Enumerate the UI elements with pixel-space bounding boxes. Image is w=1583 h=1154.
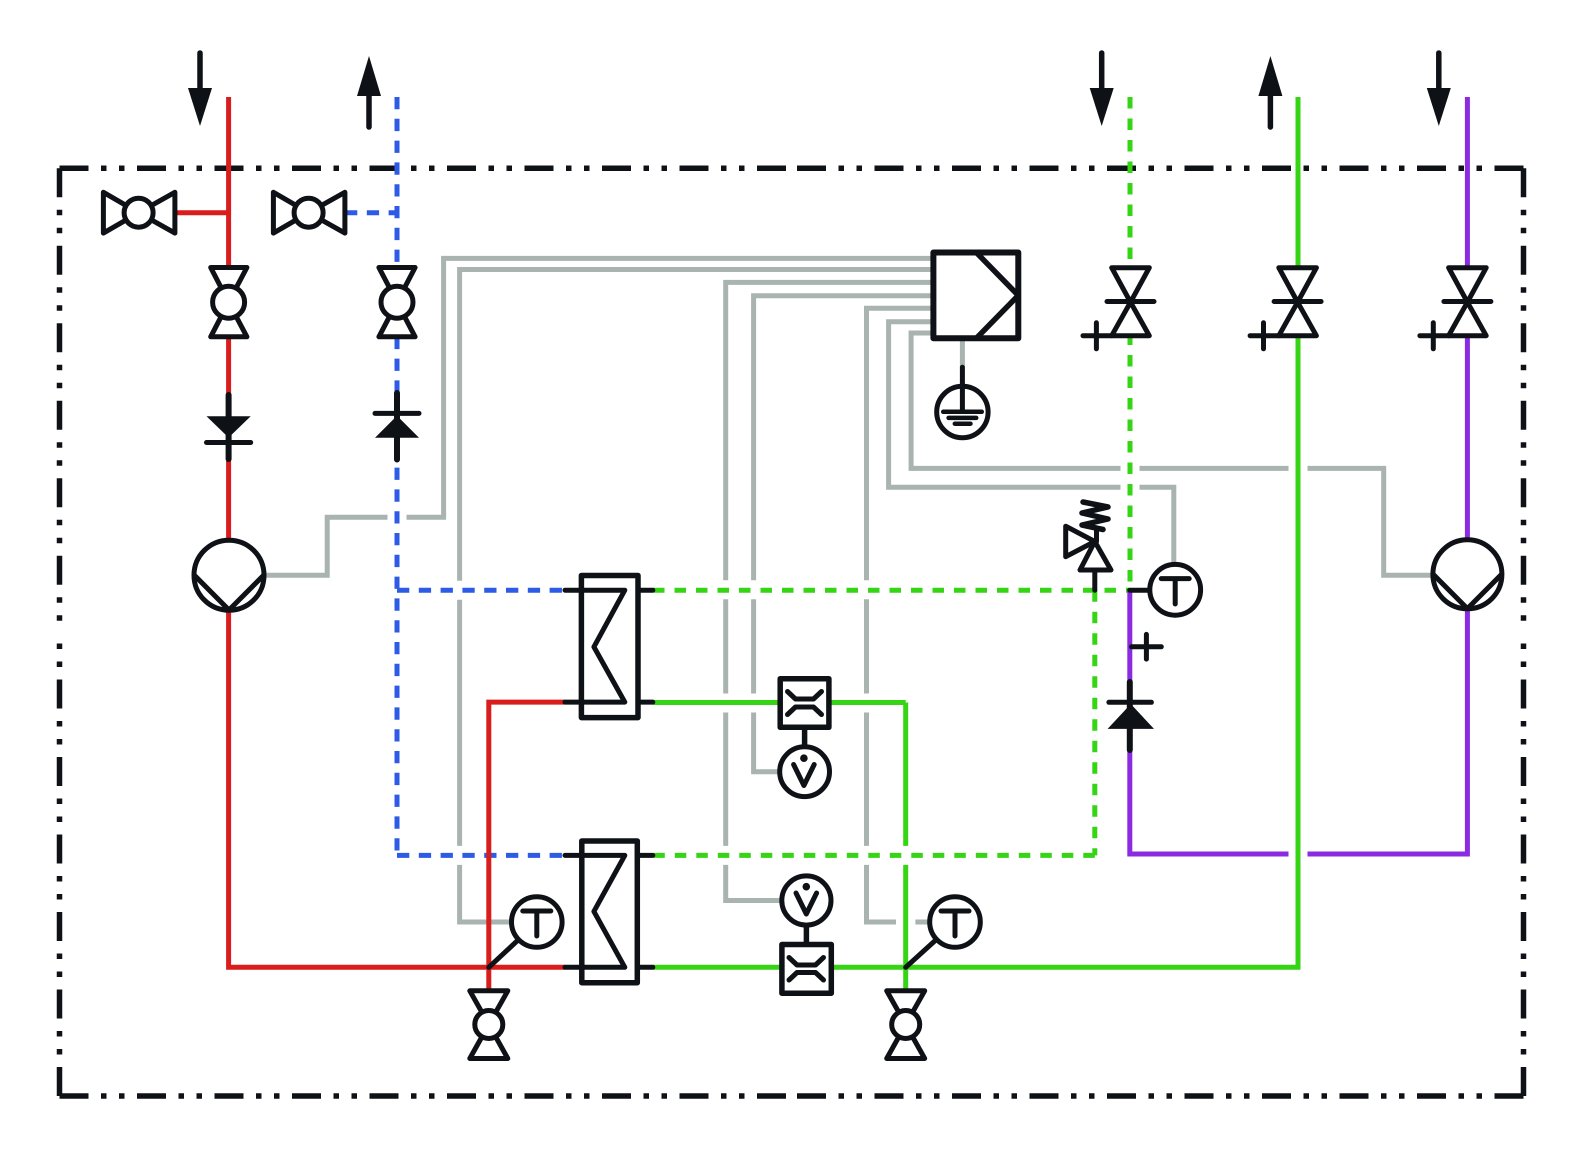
temperature sensor T2 (906, 897, 981, 968)
flow sensor F2 (782, 876, 831, 945)
temperature sensor T3 (1130, 564, 1201, 615)
control wire W7 controller to pump P2 (911, 333, 1433, 575)
green dashed vertical branch (1092, 590, 1097, 855)
purple pipe from top entry through pump P2 (1308, 97, 1468, 854)
control wire W6 controller to sensor T3 (889, 322, 1174, 565)
check valve CV3 (purple line) (1108, 682, 1154, 750)
red supply pipe vertical and bottom run (229, 97, 565, 967)
temperature sensor T1 (489, 897, 562, 968)
flow arrow down (green dashed inlet) (1090, 53, 1114, 126)
green vertical connecting to bottom run (903, 703, 908, 968)
balancing valve BV1 (green dashed line) (1083, 268, 1154, 349)
balancing valve BV3 (purple line) (1420, 268, 1491, 349)
control wire W5 controller to sensor T2 (867, 308, 934, 922)
flow meter restriction FM1 (780, 679, 829, 728)
heat exchanger HX2 (565, 841, 653, 983)
green dashed run to HX2 top right port (653, 853, 1095, 858)
blue return pipe vertical (395, 97, 400, 855)
green dashed run HX1 top right to junction (653, 588, 1130, 593)
ground symbol (937, 367, 988, 437)
blue branch to HX1 top left port (397, 588, 565, 593)
shut-off valve V3 (red line) (211, 268, 247, 337)
pump P1 (194, 540, 264, 610)
green bottom run and riser to top exit (653, 97, 1298, 967)
blue branch to HX2 top left port (397, 853, 565, 858)
control wire W1 pump P1 to controller (265, 258, 934, 575)
heat exchanger HX1 (565, 576, 653, 718)
check valve CV1 (red line) (207, 395, 251, 459)
control wire W2 controller to sensor T1 (460, 270, 934, 923)
drain valve DV2 (887, 991, 925, 1059)
balancing valve BV2 (green line) (1250, 268, 1321, 349)
red riser to HX1 bottom left port (489, 702, 565, 967)
green pipe from HX1 bottom right through flow meter (653, 700, 906, 705)
control wire W3 controller to flow sensor F2 (726, 282, 934, 900)
system boundary (60, 168, 1524, 1096)
safety valve SV1 (1066, 502, 1111, 590)
pump P2 (1433, 540, 1502, 609)
control wire W4 controller to flow sensor F1 (754, 296, 934, 772)
controller U1 (933, 253, 1018, 339)
green stub to drain valve DV2 (903, 967, 908, 991)
plus marker on purple riser (1132, 634, 1162, 659)
flow arrow down (red supply inlet) (188, 53, 212, 126)
green dashed pipe vertical from top entry (1128, 97, 1133, 590)
ball valve V2 (273, 192, 345, 233)
flow sensor F1 (780, 727, 830, 796)
blue stub to ball valve V2 (345, 210, 397, 215)
drain valve DV1 (470, 991, 508, 1059)
flow arrow up (green outlet) (1258, 56, 1282, 127)
ball valve V1 (103, 192, 174, 233)
red stub to drain valve DV1 (486, 967, 491, 991)
flow arrow down (purple inlet) (1427, 53, 1451, 126)
red stub to ball valve V1 (175, 210, 229, 215)
flow arrow up (blue return outlet) (357, 56, 381, 127)
check valve CV2 (blue line) (375, 393, 419, 460)
ground wire gray segment (960, 338, 965, 367)
shut-off valve V4 (blue line) (379, 268, 415, 337)
purple run to check valve riser (1130, 590, 1289, 854)
flow meter restriction FM2 (782, 945, 831, 994)
